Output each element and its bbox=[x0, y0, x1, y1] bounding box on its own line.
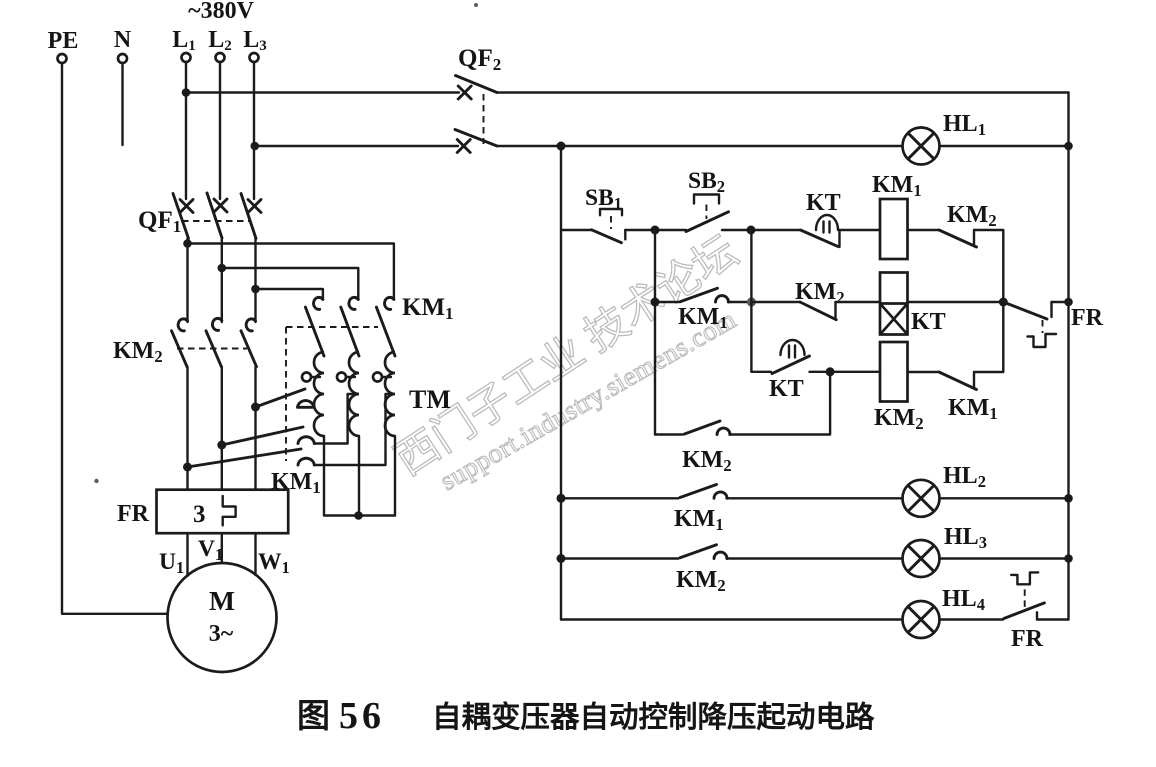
node tap contact pivot 1 bbox=[251, 403, 260, 412]
label U1 bbox=[159, 549, 184, 577]
wire V1 FR to motor bbox=[221, 533, 223, 563]
svg-text:56: 56 bbox=[339, 695, 385, 737]
label KM1 coil bbox=[872, 172, 922, 200]
label HL3 bbox=[944, 524, 987, 552]
svg-text:3: 3 bbox=[193, 501, 206, 528]
node row2 left bbox=[651, 298, 660, 307]
wire vertical node SB2 down to row3 bbox=[750, 230, 752, 372]
coil KM2 bbox=[880, 342, 908, 402]
node HL3 row left bbox=[557, 554, 566, 563]
label V1 bbox=[198, 536, 223, 564]
KM2 NO lamp hook bbox=[714, 552, 727, 558]
wire L3 below QF1 bbox=[254, 239, 256, 323]
wire feed L1 to KM1 run pole 3 bbox=[188, 244, 394, 300]
label KM1 run bbox=[402, 294, 454, 323]
contactor KM2 main contact 1 hook bbox=[178, 319, 187, 331]
wire TM coil 3 bottom bbox=[394, 436, 396, 516]
wire KM2 NC to corner down to row2 node bbox=[974, 230, 1003, 302]
contactor KM1 NO lamp contact blade bbox=[680, 485, 717, 498]
node QF1 out 3 bbox=[251, 285, 260, 294]
QF1 mechanical link dashed bbox=[182, 220, 251, 222]
svg-text:KT: KT bbox=[911, 309, 946, 335]
KM2 mechanical link dashed bbox=[177, 348, 247, 350]
ink speck left bbox=[94, 479, 98, 483]
wire L2 down to QF1 bbox=[219, 62, 221, 199]
contactor KM2 NC row2 blade bbox=[800, 302, 836, 320]
svg-text:自耦变压器自动控制降压起动电路: 自耦变压器自动控制降压起动电路 bbox=[432, 700, 875, 734]
wire L2 below QF1 bbox=[221, 238, 223, 322]
contactor KM2 NC interlock row1 blade bbox=[939, 230, 977, 247]
wire TM star bus bbox=[324, 514, 395, 516]
KM1 tap contact 1 hook bbox=[298, 401, 314, 408]
wire row4 corner and to KM2 NO bbox=[655, 433, 683, 435]
terminal L2 bbox=[208, 27, 232, 62]
autotransformer TM coil 3 bbox=[385, 352, 395, 436]
contactor KM1 tap contact 3 blade bbox=[188, 449, 302, 467]
QF2 mechanical link dashed bbox=[483, 94, 485, 144]
label 3~ bbox=[209, 621, 234, 647]
TM coil 3 tap circle bbox=[373, 373, 391, 382]
wire node to KT NC bbox=[751, 229, 801, 231]
wire N stub bbox=[121, 63, 123, 145]
contactor KM1 NO self-hold blade bbox=[680, 288, 718, 302]
wire tap 2 to coil 2 bbox=[314, 394, 357, 444]
ink speck top bbox=[474, 3, 478, 7]
wire node to KM2 NC row2 bbox=[751, 301, 800, 303]
coil KT with X bbox=[880, 273, 908, 335]
FR NC fixed stub bbox=[1050, 302, 1052, 317]
terminal L1 bbox=[172, 27, 196, 62]
SB1 fixed stub bbox=[624, 230, 626, 239]
KM2 NC fixed stub bbox=[973, 230, 975, 246]
label SB2 bbox=[688, 168, 725, 196]
breaker QF2 pole 1 bbox=[456, 76, 498, 100]
contactor KM1 run contact 1 blade bbox=[305, 307, 324, 356]
wire HL2 row to KM1 NO bbox=[561, 497, 679, 499]
thermal relay FR NO contact blade bbox=[1004, 603, 1045, 619]
KM1 mechanical link dashed vertical bbox=[285, 327, 287, 461]
svg-text:PE: PE bbox=[48, 28, 79, 54]
label KM2 main bbox=[113, 338, 163, 366]
KM1 tap contact 3 hook bbox=[298, 458, 314, 465]
FR NO fixed stub bbox=[1036, 612, 1038, 619]
contactor KM1 run contact 2 hook bbox=[349, 297, 358, 309]
label KM1 tap bbox=[271, 469, 321, 497]
wire node to SB2 bbox=[655, 229, 686, 231]
contactor KM2 NO bypass blade bbox=[685, 421, 721, 434]
wire row2 node to KM1 NO bbox=[655, 301, 679, 303]
wire SB2 to node bbox=[722, 229, 751, 231]
breaker QF1 pole 3 bbox=[241, 194, 261, 239]
node QF1 out 2 bbox=[218, 264, 227, 273]
wire L2 from KM2 to FR bbox=[221, 367, 223, 490]
label M bbox=[209, 585, 235, 616]
wire L3 from KM2 to FR bbox=[254, 367, 256, 490]
label TM bbox=[409, 385, 451, 414]
label KM2 row2 bbox=[795, 279, 845, 307]
wire bus line2 from QF2 pole2 to HL1 lamp bbox=[497, 145, 903, 147]
KM2 NO hook bbox=[717, 428, 730, 434]
label HL1 bbox=[943, 111, 986, 139]
node tap contact pivot 2 bbox=[217, 441, 226, 450]
node right bus HL2 bbox=[1064, 494, 1073, 503]
wire HL3 row to KM2 NO bbox=[561, 557, 679, 559]
node row2 mid (grey) bbox=[747, 297, 756, 306]
wire left control bus bbox=[560, 146, 562, 620]
label KM2 HL3 row bbox=[676, 567, 726, 595]
contactor KM2 main contact 3 blade bbox=[241, 331, 257, 367]
coil KM1 bbox=[880, 199, 908, 259]
breaker QF2 pole 2 bbox=[455, 130, 497, 153]
breaker QF1 pole 1 bbox=[173, 194, 193, 239]
wire FR NO to right bus corner bbox=[1037, 618, 1069, 620]
KT NC fixed stub bbox=[838, 230, 840, 247]
KM1 NO hook bbox=[716, 296, 729, 302]
node tap contact pivot 3 bbox=[183, 463, 192, 472]
wire KT NO to node bbox=[810, 371, 831, 373]
label FR row2 bbox=[1071, 305, 1104, 331]
label HL2 bbox=[943, 463, 986, 491]
wire KM2 NO to lamp HL3 bbox=[727, 557, 903, 559]
svg-text:图: 图 bbox=[297, 699, 330, 735]
contactor KM1 run contact 3 blade bbox=[376, 307, 395, 356]
FR heater element symbol bbox=[223, 496, 236, 525]
wire PE down and to motor bbox=[62, 63, 168, 614]
wire right bus bbox=[1067, 93, 1069, 620]
SB2 cap bbox=[694, 195, 719, 204]
wire KM2 NO row4 up to row3 node bbox=[730, 372, 831, 435]
autotransformer TM coil 2 bbox=[349, 352, 359, 436]
label KM1 row3 bbox=[948, 395, 998, 423]
wire KT coil to row2 right node bbox=[908, 301, 1004, 303]
TM coil 1 tap circle bbox=[302, 373, 320, 382]
lamp HL1 bbox=[903, 128, 940, 165]
FR NO actuator dashed bbox=[1024, 589, 1026, 610]
caption title text bbox=[432, 700, 875, 734]
wire HL4 to FR NO bbox=[940, 618, 1004, 620]
motor M circle bbox=[168, 563, 277, 672]
contactor KM2 main contact 1 blade bbox=[172, 331, 188, 367]
pushbutton SB1 blade bbox=[592, 230, 622, 243]
lamp HL3 bbox=[903, 540, 940, 577]
lamp HL4 bbox=[903, 601, 940, 638]
thermal relay FR box bbox=[157, 490, 289, 534]
svg-text:FR: FR bbox=[117, 501, 150, 527]
node row3 mid bbox=[826, 367, 835, 376]
wire tap 3 to coil 3 bbox=[314, 394, 393, 465]
contactor KM1 run contact 1 hook bbox=[314, 297, 323, 309]
node TM star junction bbox=[354, 511, 363, 520]
KT NO delay dome bbox=[781, 340, 805, 357]
label 3 inside FR box bbox=[193, 501, 206, 528]
label W1 bbox=[258, 549, 290, 577]
label FR HL4 row bbox=[1011, 626, 1044, 652]
KM1 tap contact 2 hook bbox=[298, 437, 314, 444]
svg-text:TM: TM bbox=[409, 385, 451, 414]
wire L1 down to QF1 bbox=[185, 62, 187, 199]
contactor KM1 run contact 3 hook bbox=[385, 297, 394, 309]
contactor KM1 run contact 2 blade bbox=[341, 307, 359, 356]
label ~380V bbox=[188, 0, 254, 24]
label KT coil bbox=[911, 309, 946, 335]
contactor KM1 tap contact 1 blade bbox=[256, 389, 306, 407]
node L1 branch junction bbox=[182, 88, 191, 97]
caption 图 56 bbox=[297, 695, 385, 737]
wire left bus vertical through row2 bbox=[654, 230, 656, 435]
time relay KT NC delayed contact blade bbox=[801, 230, 838, 246]
node right bus line2 bbox=[1064, 142, 1073, 151]
contactor KM2 main contact 3 hook bbox=[246, 319, 255, 331]
wire HL4 row from left bus bbox=[561, 618, 903, 620]
FR NC actuator dashed bbox=[1042, 320, 1044, 333]
label KM2 row4 bbox=[682, 447, 732, 475]
node QF1 out 1 bbox=[183, 239, 192, 248]
svg-text:M: M bbox=[209, 585, 235, 616]
label QF1 bbox=[138, 207, 181, 236]
wire top bus line1 from L1 to QF2 bbox=[186, 91, 459, 93]
wire W1 FR to motor bbox=[254, 533, 256, 575]
FR heater pulse symbol row2 bbox=[1028, 334, 1057, 347]
node left control bus top bbox=[557, 142, 566, 151]
SB2 actuator dashed bbox=[705, 205, 707, 220]
contactor KM1 NC interlock row3 blade bbox=[939, 372, 977, 390]
KM2 NC row2 fixed stub bbox=[834, 302, 836, 318]
wire HL2 to right bus bbox=[940, 497, 1069, 499]
label KM2 row1 bbox=[947, 202, 997, 230]
KT NC delay dome bbox=[816, 215, 838, 233]
svg-text:KT: KT bbox=[769, 376, 804, 402]
breaker QF1 pole 2 bbox=[207, 193, 227, 238]
watermark diagonal siemens forum text bbox=[388, 228, 747, 496]
svg-text:FR: FR bbox=[1011, 626, 1044, 652]
label SB1 bbox=[585, 185, 622, 213]
label KM2 coil bbox=[874, 405, 924, 433]
node row2 right bbox=[999, 298, 1008, 307]
contactor KM2 main contact 2 blade bbox=[206, 331, 221, 367]
wire U1 FR to motor bbox=[186, 533, 188, 576]
wire node to KM2 coil bbox=[830, 371, 880, 373]
svg-text:~380V: ~380V bbox=[188, 0, 254, 24]
wire row3 corner from vertical bbox=[751, 371, 771, 373]
node after SB2 bbox=[747, 226, 756, 235]
KM1 run mechanical link dashed horizontal bbox=[286, 326, 378, 328]
wire bus line2 from HL1 to right bus bbox=[940, 145, 1069, 147]
node L3 branch junction bbox=[251, 142, 260, 151]
wire KM1 NC up to row2 node bbox=[974, 302, 1003, 372]
TM coil 2 tap circle bbox=[337, 373, 355, 382]
wire KM2 NC row2 to KT coil bbox=[836, 301, 881, 303]
wire TM coil 1 bottom bbox=[323, 436, 325, 516]
terminal N bbox=[114, 27, 132, 63]
SB1 actuator dashed bbox=[610, 216, 612, 229]
label KT row1 bbox=[806, 190, 841, 216]
node HL2 row left bbox=[557, 494, 566, 503]
SB1 cap bbox=[600, 209, 622, 215]
time relay KT NO delayed contact blade bbox=[772, 356, 810, 374]
wire KM1 NO to node bbox=[728, 301, 751, 303]
wire top bus line1 from QF2 to right bus corner bbox=[497, 91, 1069, 93]
contactor KM2 main contact 2 hook bbox=[212, 318, 221, 330]
wire FR NC to right bus bbox=[1052, 301, 1069, 303]
wire bus line2 from L3 to QF2 pole2 bbox=[255, 145, 458, 147]
KM1 NO lamp hook bbox=[714, 492, 727, 498]
label FR left of box bbox=[117, 501, 150, 527]
autotransformer TM coil 1 bbox=[314, 352, 324, 436]
contactor KM1 tap contact 2 blade bbox=[222, 427, 303, 445]
wire SB1 to node bbox=[625, 229, 655, 231]
thermal relay FR NC contact blade bbox=[1003, 302, 1047, 319]
FR heater pulse symbol HL4 bbox=[1011, 572, 1038, 584]
wire L3 down to QF1 bbox=[253, 62, 255, 199]
wire feed L2 to KM1 run pole 2 bbox=[222, 268, 358, 299]
wire L1 from KM2 to FR bbox=[186, 367, 188, 490]
label HL4 bbox=[942, 586, 985, 614]
wire L1 below QF1 bbox=[186, 239, 188, 323]
terminal L3 bbox=[243, 27, 267, 62]
label QF2 bbox=[458, 45, 501, 74]
KM1 NC fixed stub bbox=[973, 372, 975, 388]
lamp HL2 bbox=[903, 480, 940, 517]
pushbutton SB2 blade bbox=[686, 212, 729, 232]
wire KM1 NO to lamp HL2 bbox=[727, 497, 903, 499]
label KM1 row2 bbox=[678, 304, 728, 332]
wire TM coil 2 bottom bbox=[358, 436, 360, 516]
label KT row3 bbox=[769, 376, 804, 402]
svg-text:FR: FR bbox=[1071, 305, 1104, 331]
svg-text:3~: 3~ bbox=[209, 621, 234, 647]
wire KM1 coil to KM2 NC bbox=[908, 229, 940, 231]
terminal PE bbox=[48, 28, 79, 63]
wire KM2 coil to KM1 NC bbox=[908, 371, 940, 373]
contactor KM2 NO lamp contact blade bbox=[680, 545, 717, 558]
node after SB1 bbox=[651, 226, 660, 235]
wire HL3 to right bus bbox=[940, 557, 1069, 559]
node right bus row2 bbox=[1064, 298, 1073, 307]
svg-text:N: N bbox=[114, 27, 132, 53]
wire KT NC to KM1 coil bbox=[840, 229, 881, 231]
svg-text:KT: KT bbox=[806, 190, 841, 216]
wire feed L3 to KM1 run pole 1 bbox=[256, 289, 323, 299]
label KM1 HL2 row bbox=[674, 506, 724, 534]
wire row1 from left bus to SB1 bbox=[561, 229, 592, 231]
node right bus HL3 bbox=[1064, 554, 1073, 563]
